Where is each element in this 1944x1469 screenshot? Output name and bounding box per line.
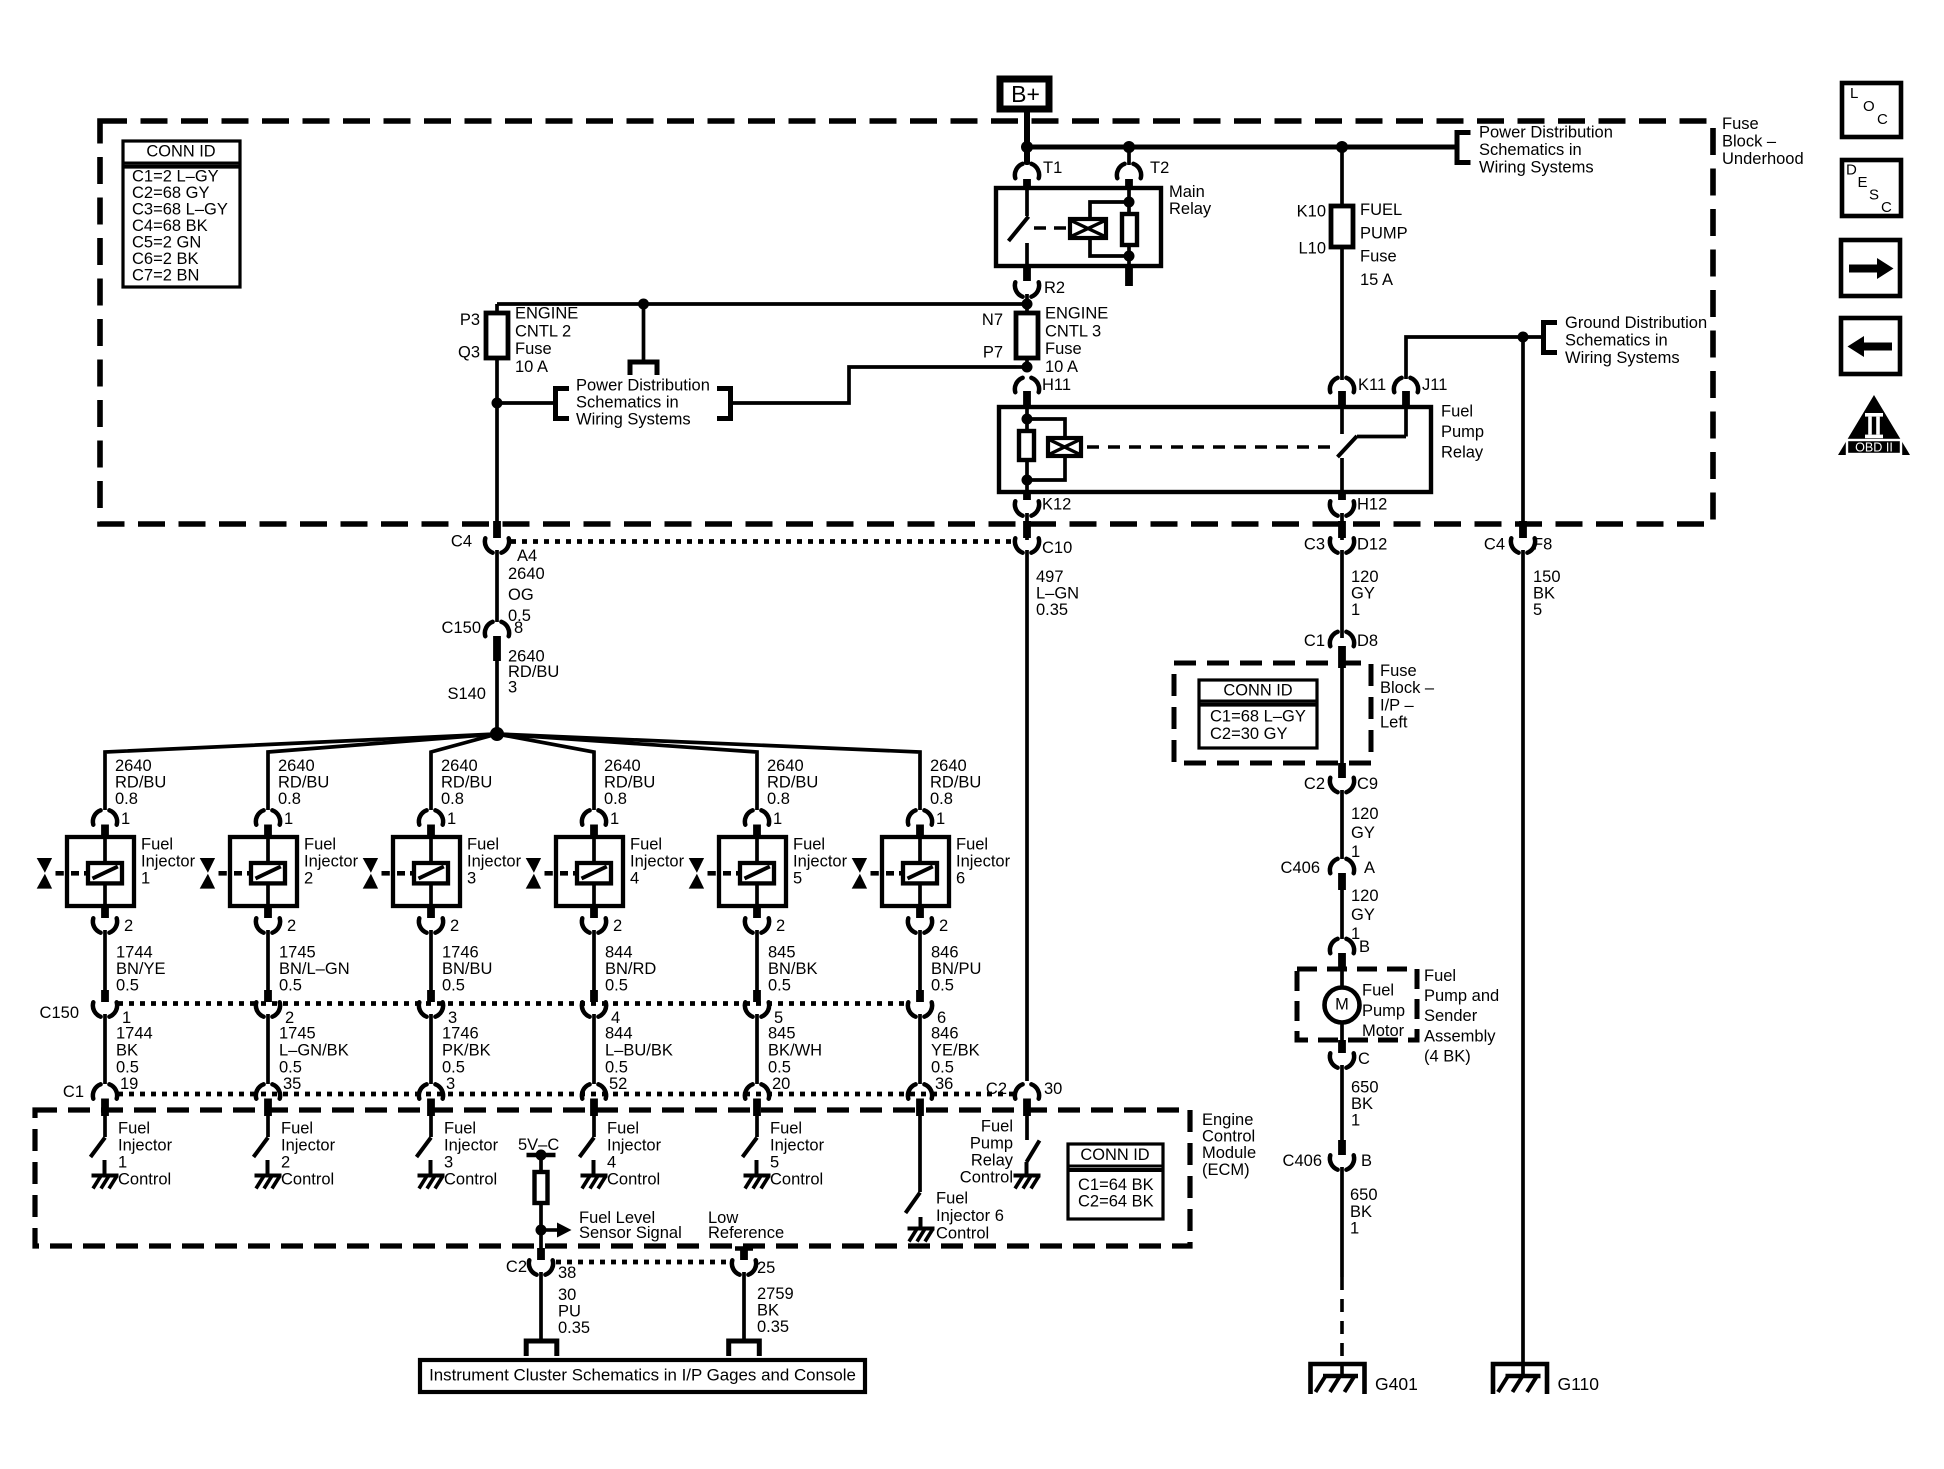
svg-text:Assembly: Assembly xyxy=(1424,1027,1496,1045)
svg-text:C: C xyxy=(1358,1050,1370,1068)
svg-text:2: 2 xyxy=(776,917,785,935)
wire 120 GY 1 (C9 to C406) xyxy=(1340,790,1344,859)
connector C1 pin 52 xyxy=(582,1084,606,1098)
svg-text:0.5: 0.5 xyxy=(279,977,302,995)
svg-text:0.8: 0.8 xyxy=(115,790,138,808)
svg-text:Control: Control xyxy=(281,1171,334,1189)
svg-text:Fuel: Fuel xyxy=(981,1118,1013,1136)
svg-text:S: S xyxy=(1869,186,1879,203)
svg-text:2: 2 xyxy=(939,917,948,935)
node junction at T1 drop xyxy=(1021,141,1033,153)
bracket to power distribution schematics (top) xyxy=(1457,133,1471,163)
svg-text:D12: D12 xyxy=(1357,536,1387,554)
Fuse Block - Underhood dashed boundary xyxy=(100,121,1713,524)
wire 2640 OG 0.5 (A4 to C150) xyxy=(495,550,499,622)
svg-text:CNTL 3: CNTL 3 xyxy=(1045,322,1101,340)
fuel injector 6 box xyxy=(882,837,949,906)
connector pin 2 of fuel injector 1 xyxy=(101,906,109,918)
connector T2 xyxy=(1127,147,1131,165)
wire 1744 BK 0.5 xyxy=(103,1014,107,1084)
svg-text:2: 2 xyxy=(124,917,133,935)
svg-text:Fuel: Fuel xyxy=(936,1190,968,1208)
svg-text:H11: H11 xyxy=(1042,376,1071,394)
svg-text:3: 3 xyxy=(467,870,476,888)
fuse ENGINE CNTL 3 (N7/P7) xyxy=(1016,313,1038,358)
svg-text:CNTL 2: CNTL 2 xyxy=(515,322,571,340)
connector C2 pin 38 xyxy=(537,1248,545,1260)
ECM driver switch for fuel injector 4 xyxy=(592,1116,596,1137)
svg-text:1: 1 xyxy=(284,810,293,828)
fuel pump relay coil branch xyxy=(1025,408,1029,431)
svg-text:19: 19 xyxy=(120,1075,138,1093)
svg-text:C3: C3 xyxy=(1304,536,1325,554)
wire 650 BK 1 (C406 to G401) xyxy=(1340,1167,1344,1277)
wire 2640 RD/BU 3 (C150 to splice) xyxy=(495,661,499,734)
dotted connector link C4-C10 xyxy=(511,539,1013,544)
svg-text:120: 120 xyxy=(1351,568,1379,586)
connector H12 xyxy=(1338,492,1346,500)
nav icon DESC xyxy=(1842,160,1901,216)
svg-text:Power Distribution: Power Distribution xyxy=(576,377,710,395)
svg-text:Motor: Motor xyxy=(1362,1022,1405,1040)
connector C406 pin A xyxy=(1330,859,1354,873)
svg-text:M: M xyxy=(1335,996,1349,1014)
svg-text:Injector: Injector xyxy=(770,1137,825,1155)
svg-text:1744: 1744 xyxy=(116,944,153,962)
svg-text:C3=68 L–GY: C3=68 L–GY xyxy=(132,201,228,219)
wire to offpage symbol xyxy=(642,304,646,362)
ECM fuel pump relay control switch xyxy=(1025,1116,1029,1140)
svg-text:3: 3 xyxy=(446,1075,455,1093)
svg-text:RD/BU: RD/BU xyxy=(441,774,492,792)
svg-text:(ECM): (ECM) xyxy=(1202,1161,1250,1179)
svg-text:C406: C406 xyxy=(1281,859,1320,877)
svg-text:1: 1 xyxy=(141,870,150,888)
svg-text:Fuel: Fuel xyxy=(141,836,173,854)
svg-text:36: 36 xyxy=(935,1075,953,1093)
connector K11 xyxy=(1330,378,1354,392)
svg-text:E: E xyxy=(1858,174,1868,191)
svg-text:120: 120 xyxy=(1351,805,1379,823)
svg-text:Injector: Injector xyxy=(793,853,848,871)
svg-text:35: 35 xyxy=(283,1075,301,1093)
bracket power distribution (right end) xyxy=(717,389,731,419)
svg-text:BK/WH: BK/WH xyxy=(768,1041,822,1059)
connector pin 1 of fuel injector 5 xyxy=(745,810,769,824)
wire junction to ground distribution bracket xyxy=(1523,335,1544,339)
svg-text:0.5: 0.5 xyxy=(931,1058,954,1076)
svg-text:5: 5 xyxy=(793,870,802,888)
svg-text:Fuel: Fuel xyxy=(793,836,825,854)
svg-text:C4: C4 xyxy=(451,533,472,551)
svg-text:RD/BU: RD/BU xyxy=(767,774,818,792)
svg-text:Injector: Injector xyxy=(630,853,685,871)
svg-text:(4 BK): (4 BK) xyxy=(1424,1047,1471,1065)
connector pin 2 of fuel injector 3 xyxy=(427,906,435,918)
node junction at power distribution offpage drop xyxy=(638,299,649,310)
svg-text:0.5: 0.5 xyxy=(605,1058,628,1076)
wire J11 to ground distribution xyxy=(1406,337,1523,379)
fuel pump relay coil xyxy=(1048,438,1081,456)
svg-text:D8: D8 xyxy=(1357,632,1378,650)
svg-text:Injector 6: Injector 6 xyxy=(936,1207,1004,1225)
svg-text:30: 30 xyxy=(1044,1080,1062,1098)
svg-text:Fuse: Fuse xyxy=(1722,115,1759,133)
Fuel Pump and Sender Assembly dashed boundary xyxy=(1297,969,1417,1040)
connector C2 pin 25 (low reference) xyxy=(735,1246,753,1251)
svg-text:Sensor Signal: Sensor Signal xyxy=(579,1224,682,1242)
fuel injector 3 coil xyxy=(429,839,433,864)
dotted connector link C2 row xyxy=(556,1260,729,1265)
main relay internal resistor xyxy=(1127,188,1131,214)
svg-text:Fuel: Fuel xyxy=(1424,967,1456,985)
svg-text:Relay: Relay xyxy=(1169,200,1212,218)
connector C150 pin 5 xyxy=(753,990,761,1002)
svg-text:C1=64 BK: C1=64 BK xyxy=(1078,1176,1154,1194)
ground G401 xyxy=(1311,1364,1365,1394)
wire 1746 PK/BK 0.5 xyxy=(429,1014,433,1084)
main relay coil xyxy=(1070,219,1106,238)
svg-text:YE/BK: YE/BK xyxy=(931,1041,980,1059)
svg-text:Fuse: Fuse xyxy=(515,340,552,358)
connector pin 1 of fuel injector 2 xyxy=(256,810,280,824)
splice branch wire to injector 2 xyxy=(268,734,497,810)
svg-text:H12: H12 xyxy=(1357,496,1387,514)
svg-text:Control: Control xyxy=(1202,1128,1255,1146)
svg-text:T1: T1 xyxy=(1043,159,1062,177)
svg-text:Pump: Pump xyxy=(970,1135,1013,1153)
connector C (pump assembly) xyxy=(1338,1040,1346,1053)
wire 845 BN/BK 0.5 xyxy=(755,930,759,1001)
svg-text:1744: 1744 xyxy=(116,1025,153,1043)
fuel injector 4 coil xyxy=(592,839,596,864)
wire ground distribution down to F8 xyxy=(1521,337,1525,524)
connector C1/D8 (I/P fuse block) xyxy=(1340,646,1344,652)
offpage connector to instrument cluster (left) xyxy=(526,1341,557,1356)
svg-text:CONN ID: CONN ID xyxy=(146,143,215,161)
svg-text:Pump: Pump xyxy=(1441,423,1484,441)
wire 846 YE/BK 0.5 xyxy=(918,1014,922,1084)
svg-text:2640: 2640 xyxy=(930,757,967,775)
svg-text:G110: G110 xyxy=(1558,1374,1600,1394)
svg-text:ENGINE: ENGINE xyxy=(515,305,578,323)
svg-text:Fuse: Fuse xyxy=(1045,340,1082,358)
svg-text:Schematics in: Schematics in xyxy=(1565,331,1668,349)
svg-text:L–BU/BK: L–BU/BK xyxy=(605,1041,673,1059)
svg-text:ENGINE: ENGINE xyxy=(1045,305,1108,323)
svg-text:L–GN: L–GN xyxy=(1036,585,1079,603)
connector B (pump assembly) xyxy=(1330,939,1354,953)
svg-text:C7=2 BN: C7=2 BN xyxy=(132,267,199,285)
svg-text:1: 1 xyxy=(1351,601,1360,619)
svg-text:3: 3 xyxy=(444,1154,453,1172)
svg-text:150: 150 xyxy=(1533,568,1561,586)
svg-text:2: 2 xyxy=(287,917,296,935)
fuel injector 1 nozzle symbol xyxy=(37,858,52,873)
wire D8 to C2/C9 inside fuse block xyxy=(1340,663,1344,764)
svg-text:Control: Control xyxy=(770,1171,823,1189)
svg-text:C: C xyxy=(1877,111,1888,128)
svg-text:2: 2 xyxy=(450,917,459,935)
svg-text:Fuel: Fuel xyxy=(281,1120,313,1138)
svg-text:BN/PU: BN/PU xyxy=(931,960,981,978)
svg-text:0.8: 0.8 xyxy=(441,790,464,808)
svg-text:2640: 2640 xyxy=(604,757,641,775)
svg-text:C2=68 GY: C2=68 GY xyxy=(132,184,210,202)
svg-text:O: O xyxy=(1863,98,1875,115)
fuel injector 4 nozzle symbol xyxy=(526,858,541,873)
svg-text:Instrument Cluster Schematics: Instrument Cluster Schematics in I/P Gag… xyxy=(429,1365,856,1384)
svg-text:OG: OG xyxy=(508,586,534,604)
svg-text:C2=30 GY: C2=30 GY xyxy=(1210,725,1288,743)
svg-text:BK: BK xyxy=(1533,585,1555,603)
connector C1 pin 3 xyxy=(419,1084,443,1098)
connector T1 xyxy=(1025,147,1029,165)
svg-text:Underhood: Underhood xyxy=(1722,150,1804,168)
wire 120 GY 1 (C406 to pump) xyxy=(1340,890,1344,939)
svg-text:BN/YE: BN/YE xyxy=(116,960,166,978)
wire 120 GY 1 (D12 to D8) xyxy=(1340,550,1344,638)
svg-text:BN/RD: BN/RD xyxy=(605,960,656,978)
svg-text:B+: B+ xyxy=(1011,81,1040,107)
svg-text:8: 8 xyxy=(514,619,523,637)
svg-text:Control: Control xyxy=(444,1171,497,1189)
Fuel Pump Relay box xyxy=(999,407,1431,492)
ECM pull-up resistor xyxy=(535,1172,548,1203)
svg-text:Injector: Injector xyxy=(118,1137,173,1155)
connector J11 xyxy=(1394,378,1418,392)
svg-text:B: B xyxy=(1361,1152,1372,1170)
svg-text:Sender: Sender xyxy=(1424,1007,1478,1025)
Instrument Cluster reference box xyxy=(420,1360,865,1392)
svg-text:844: 844 xyxy=(605,944,633,962)
svg-text:4: 4 xyxy=(607,1154,616,1172)
svg-text:RD/BU: RD/BU xyxy=(115,774,166,792)
fuse ENGINE CNTL 2 (P3/Q3) xyxy=(486,313,508,358)
svg-text:497: 497 xyxy=(1036,568,1064,586)
main relay switch xyxy=(1025,188,1029,216)
wire 1745 BN/L–GN 0.5 xyxy=(266,930,270,1001)
svg-text:Wiring Systems: Wiring Systems xyxy=(576,411,691,429)
svg-text:F8: F8 xyxy=(1533,536,1552,554)
svg-text:0.5: 0.5 xyxy=(279,1058,302,1076)
svg-text:C4: C4 xyxy=(1484,536,1505,554)
svg-text:L–GN/BK: L–GN/BK xyxy=(279,1041,349,1059)
svg-text:1: 1 xyxy=(936,810,945,828)
connector C150 pin 1 xyxy=(101,990,109,1002)
nav icon LOC xyxy=(1842,83,1901,137)
connector C4/A4 (underhood to engine harness) xyxy=(493,521,501,538)
node junction fuel level sensor signal xyxy=(536,1225,547,1236)
dotted connector link C1 row xyxy=(118,1092,1014,1097)
svg-text:PK/BK: PK/BK xyxy=(442,1041,491,1059)
connector C2/C9 xyxy=(1338,763,1346,778)
svg-text:Fuel: Fuel xyxy=(607,1120,639,1138)
svg-text:Module: Module xyxy=(1202,1144,1256,1162)
svg-text:Wiring Systems: Wiring Systems xyxy=(1565,349,1680,367)
wire 1744 BN/YE 0.5 xyxy=(103,930,107,1001)
svg-text:Fuse: Fuse xyxy=(1360,248,1397,266)
svg-text:Fuel: Fuel xyxy=(770,1120,802,1138)
connector pin 2 of fuel injector 4 xyxy=(590,906,598,918)
svg-text:1746: 1746 xyxy=(442,1025,479,1043)
wire fuel pump fuse to K11 xyxy=(1340,247,1344,380)
svg-text:CONN ID: CONN ID xyxy=(1080,1146,1149,1164)
fuse FUEL PUMP 15A (K10/L10) xyxy=(1340,147,1344,206)
svg-text:GY: GY xyxy=(1351,906,1375,924)
svg-text:C9: C9 xyxy=(1357,775,1378,793)
svg-text:L10: L10 xyxy=(1298,240,1326,258)
svg-text:RD/BU: RD/BU xyxy=(604,774,655,792)
svg-text:Fuel: Fuel xyxy=(630,836,662,854)
CONN ID table (I/P fuse block) xyxy=(1199,680,1317,748)
node junction below ENGINE CNTL 3 xyxy=(1022,362,1033,373)
node junction R2 / ENGINE CNTL 2 feed xyxy=(1022,299,1033,310)
svg-text:D: D xyxy=(1846,161,1857,178)
svg-text:Control: Control xyxy=(960,1169,1013,1187)
svg-text:1: 1 xyxy=(1351,1112,1360,1130)
svg-text:RD/BU: RD/BU xyxy=(930,774,981,792)
svg-text:10 A: 10 A xyxy=(515,358,548,376)
svg-text:Control: Control xyxy=(118,1171,171,1189)
svg-text:1: 1 xyxy=(773,810,782,828)
svg-text:0.5: 0.5 xyxy=(605,977,628,995)
nav icon forward arrow xyxy=(1841,240,1900,296)
svg-text:5: 5 xyxy=(1533,601,1542,619)
svg-text:Wiring Systems: Wiring Systems xyxy=(1479,158,1594,176)
svg-text:S140: S140 xyxy=(447,685,486,703)
svg-text:FUEL: FUEL xyxy=(1360,201,1402,219)
connector C150 pin 6 xyxy=(916,990,924,1002)
fuel injector 2 coil xyxy=(266,839,270,864)
fuel injector 5 nozzle symbol xyxy=(689,858,704,873)
fuel injector 2 nozzle symbol xyxy=(200,858,215,873)
svg-text:Block –: Block – xyxy=(1722,133,1777,151)
connector C1 pin 20 xyxy=(745,1084,769,1098)
svg-text:C5=2 GN: C5=2 GN xyxy=(132,234,201,252)
svg-text:2640: 2640 xyxy=(115,757,152,775)
svg-text:1: 1 xyxy=(121,810,130,828)
svg-text:6: 6 xyxy=(956,870,965,888)
svg-text:2640: 2640 xyxy=(278,757,315,775)
offpage connector to instrument cluster (right) xyxy=(729,1341,760,1356)
svg-text:C4=68 BK: C4=68 BK xyxy=(132,217,208,235)
svg-text:P3: P3 xyxy=(460,311,480,329)
svg-text:C2=64 BK: C2=64 BK xyxy=(1078,1193,1154,1211)
connector C150 pin 3 xyxy=(427,990,435,1002)
main relay coil branch wiring xyxy=(1090,202,1129,219)
svg-text:10 A: 10 A xyxy=(1045,358,1078,376)
svg-text:Injector: Injector xyxy=(281,1137,336,1155)
svg-text:30: 30 xyxy=(558,1286,576,1304)
connector C4/F8 xyxy=(1519,521,1527,538)
Fuse Block - I/P - Left dashed boundary xyxy=(1174,663,1371,763)
wire 845 BK/WH 0.5 xyxy=(755,1014,759,1084)
svg-text:0.8: 0.8 xyxy=(278,790,301,808)
connector C150 pin 4 xyxy=(590,990,598,1002)
connector C1 pin 35 xyxy=(256,1084,280,1098)
svg-text:Injector: Injector xyxy=(444,1137,499,1155)
connector pin 2 of fuel injector 5 xyxy=(753,906,761,918)
svg-text:RD/BU: RD/BU xyxy=(278,774,329,792)
ECM driver switch for fuel injector 3 xyxy=(429,1116,433,1137)
svg-text:1745: 1745 xyxy=(279,1025,316,1043)
svg-text:38: 38 xyxy=(558,1264,576,1282)
svg-text:52: 52 xyxy=(609,1075,627,1093)
svg-text:L: L xyxy=(1850,85,1858,102)
svg-text:845: 845 xyxy=(768,1025,796,1043)
svg-text:BN/BK: BN/BK xyxy=(768,960,818,978)
existing ground wire (dashed) to G401 xyxy=(1340,1277,1344,1376)
svg-text:Main: Main xyxy=(1169,183,1205,201)
dotted connector link C150 row xyxy=(118,1001,908,1006)
svg-text:0.5: 0.5 xyxy=(442,1058,465,1076)
svg-text:1: 1 xyxy=(1350,1220,1359,1238)
nav icon back arrow xyxy=(1841,318,1900,374)
fuel injector 5 box xyxy=(719,837,786,906)
Main Relay box xyxy=(996,188,1161,266)
svg-text:C2: C2 xyxy=(1304,775,1325,793)
bracket power distribution (left) xyxy=(556,389,570,419)
svg-text:Schematics in: Schematics in xyxy=(1479,141,1582,159)
svg-text:Fuse: Fuse xyxy=(1380,662,1417,680)
svg-text:5: 5 xyxy=(770,1154,779,1172)
svg-text:Fuel: Fuel xyxy=(304,836,336,854)
connector C10 xyxy=(1023,521,1031,538)
svg-text:Injector: Injector xyxy=(956,853,1011,871)
main relay switch control dashed link xyxy=(1034,226,1068,230)
svg-text:15 A: 15 A xyxy=(1360,271,1393,289)
battery feed B+ terminal xyxy=(1000,79,1049,109)
svg-text:Relay: Relay xyxy=(971,1152,1014,1170)
svg-text:3: 3 xyxy=(508,679,517,697)
connector C1 pin 36 xyxy=(908,1084,932,1098)
wire 150 BK 5 (F8 to G110) xyxy=(1521,550,1525,1376)
svg-text:K10: K10 xyxy=(1297,203,1326,221)
svg-text:0.35: 0.35 xyxy=(1036,601,1068,619)
svg-text:0.5: 0.5 xyxy=(931,977,954,995)
svg-text:BN/L–GN: BN/L–GN xyxy=(279,960,350,978)
ECM driver switch for fuel injector 2 xyxy=(266,1116,270,1137)
svg-text:BK: BK xyxy=(1350,1203,1372,1221)
svg-text:C150: C150 xyxy=(40,1004,79,1022)
svg-text:1: 1 xyxy=(610,810,619,828)
svg-text:Injector: Injector xyxy=(607,1137,662,1155)
node junction at fuel pump fuse drop xyxy=(1336,141,1348,153)
svg-text:R2: R2 xyxy=(1044,279,1065,297)
bus wire to power distribution xyxy=(1027,145,1457,150)
svg-text:C: C xyxy=(1881,199,1892,216)
svg-text:Reference: Reference xyxy=(708,1224,784,1242)
svg-text:T2: T2 xyxy=(1150,159,1169,177)
svg-text:Q3: Q3 xyxy=(458,344,480,362)
svg-text:Fuel: Fuel xyxy=(1441,403,1473,421)
fuel pump motor xyxy=(1340,970,1344,988)
node junction to power distribution bracket xyxy=(492,398,503,409)
connector R2 xyxy=(1023,266,1031,281)
wire ENGINE CNTL 2 fuse down to C4 xyxy=(495,358,499,523)
splice branch wire to injector 6 xyxy=(497,734,920,810)
wire R2 to Engine Cntl fuses xyxy=(1025,294,1029,313)
svg-text:PUMP: PUMP xyxy=(1360,224,1408,242)
svg-text:0.35: 0.35 xyxy=(757,1318,789,1336)
wire B+ to bus xyxy=(1024,110,1030,164)
wire 1746 BN/BU 0.5 xyxy=(429,930,433,1001)
svg-text:Fuel: Fuel xyxy=(1362,982,1394,1000)
ground G110 xyxy=(1493,1364,1547,1394)
wire power distribution bracket to ENGINE CNTL 3 xyxy=(732,367,1016,403)
fuel injector 5 coil xyxy=(755,839,759,864)
